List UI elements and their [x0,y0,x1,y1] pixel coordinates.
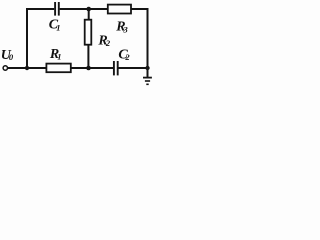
wire C1 to R3 [60,8,108,10]
capacitor C1 [55,2,59,16]
label R2 [97,34,111,49]
wire C2 to ground corner [118,67,147,69]
label C1 [49,18,61,33]
svg-text:0: 0 [9,52,14,62]
wire top-left (node A to C1) [26,8,54,10]
svg-text:1: 1 [56,22,60,32]
ground [143,78,152,85]
svg-text:1: 1 [57,52,61,62]
wire right vertical [147,8,149,78]
resistor R1 [46,64,70,73]
label R3 [115,20,128,35]
label U0 [1,48,14,63]
node dot left bottom [25,66,29,70]
wire left vertical (U0 branch) [26,8,28,68]
wire R1 to C2 [71,67,114,69]
label R1 [49,47,62,62]
svg-text:2: 2 [105,38,111,48]
wire bottom left (U0 to R1) [7,67,46,69]
capacitor C2 [114,61,118,75]
resistor R2 [85,20,92,45]
node dot R2 bottom [86,66,91,71]
resistor R3 [108,5,131,14]
svg-text:3: 3 [123,24,129,34]
wire R2 branch top [88,9,90,20]
svg-text:2: 2 [124,52,130,62]
wire R3 to right corner [131,8,149,10]
terminal U0 circle [3,66,7,70]
node dot ground junction [145,66,149,70]
label C2 [118,48,130,63]
node dot top (C1/R2/R3 junction) [86,7,91,12]
wire R2 branch bottom [87,45,89,69]
